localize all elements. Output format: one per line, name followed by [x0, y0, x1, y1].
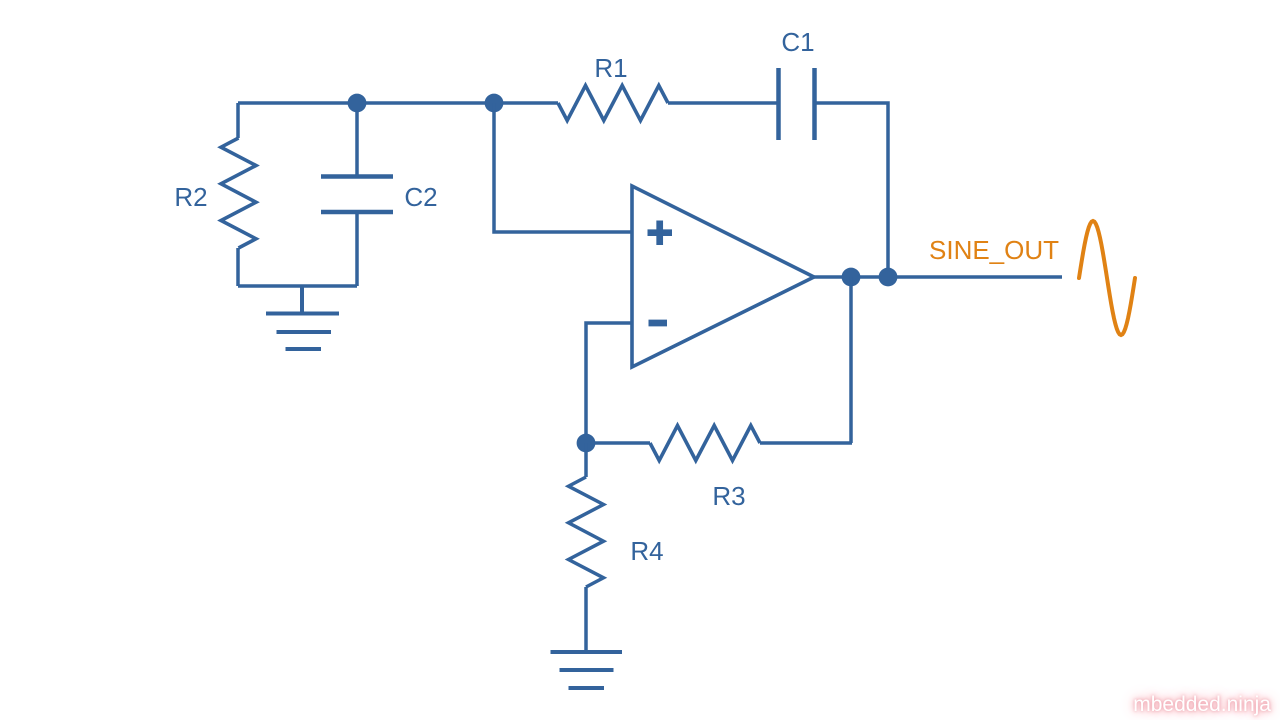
node junction dot (output): [842, 268, 861, 287]
svg-text:R3: R3: [712, 481, 745, 511]
wire bottom ground rail: [238, 284, 357, 288]
wire C2 top connection: [355, 103, 359, 177]
capacitor C1: [779, 68, 815, 140]
svg-text:R4: R4: [630, 536, 663, 566]
node junction dot (inverting node): [577, 434, 596, 453]
sine wave symbol: [1079, 221, 1135, 335]
node junction dot (feedback): [879, 268, 898, 287]
wire top rail left (node A to R1): [238, 101, 558, 105]
wire output: [814, 275, 1062, 279]
ground (bottom): [551, 652, 623, 688]
node junction dot (C2 tap): [348, 94, 367, 113]
wire inverting input: [586, 323, 632, 443]
wire C2 bottom connection: [355, 212, 359, 286]
op-amp plus symbol: [648, 221, 673, 246]
svg-text:C2: C2: [404, 182, 437, 212]
svg-text:SINE_OUT: SINE_OUT: [929, 235, 1059, 265]
wire R1 to C1: [668, 101, 778, 105]
capacitor C2: [321, 177, 393, 213]
wire R4 to ground: [584, 587, 588, 651]
wire output down to R3: [760, 277, 852, 443]
wire inverting node to R3: [586, 441, 650, 445]
wire to non-inverting input: [494, 103, 632, 232]
resistor R3: [650, 426, 760, 461]
wire node A down to R2: [236, 103, 240, 138]
svg-text:R1: R1: [594, 53, 627, 83]
op-amp minus symbol: [649, 320, 668, 327]
wire R2 bottom to ground rail: [236, 248, 240, 286]
op-amp U1: [632, 186, 814, 367]
svg-text:R2: R2: [174, 182, 207, 212]
svg-text:C1: C1: [781, 27, 814, 57]
node junction dot (non-inverting tap): [485, 94, 504, 113]
watermark: [1133, 692, 1271, 717]
wire node down to R4: [584, 443, 588, 477]
resistor R2: [221, 138, 256, 248]
resistor R4: [569, 477, 604, 587]
ground (left): [266, 286, 339, 349]
wire C1 to output node (right drop): [815, 103, 889, 277]
resistor R1: [558, 86, 668, 121]
